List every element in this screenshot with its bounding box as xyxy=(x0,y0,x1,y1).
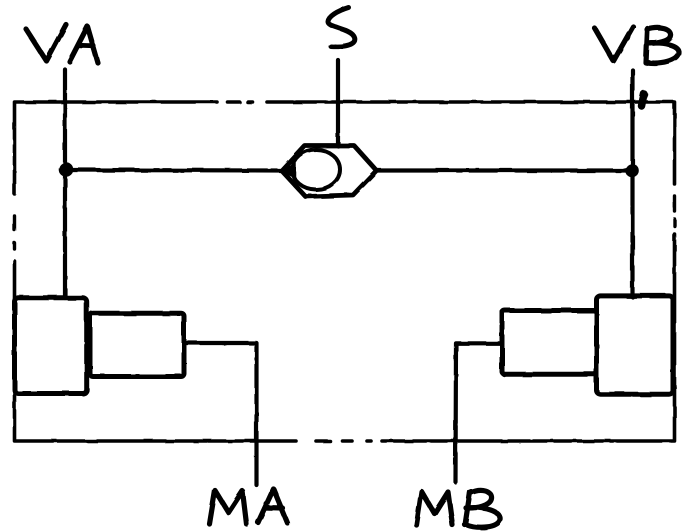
enclosure border top edge dash xyxy=(228,100,240,104)
wire S vertical xyxy=(336,60,340,146)
wire VA vertical xyxy=(63,70,67,299)
check valve block right: pilot rectangle R4 xyxy=(502,311,597,375)
node junction dot B xyxy=(625,164,639,178)
port label MB xyxy=(417,490,501,527)
shuttle valve V1 seat (filled wedge) xyxy=(282,163,296,178)
shuttle valve V1 ball xyxy=(292,150,340,190)
enclosure border top-left corner (chain line solid part) xyxy=(15,102,218,194)
enclosure border bottom edge dash 2 xyxy=(343,439,353,443)
check valve block right: body rectangle R3 xyxy=(597,296,674,394)
enclosure border left edge dash xyxy=(13,216,16,230)
port label VB xyxy=(595,27,679,64)
enclosure border bottom-right corner (chain line solid part) xyxy=(382,234,675,441)
enclosure border bottom edge dash 1 xyxy=(316,439,330,443)
wire shuttle valve right port to node B xyxy=(377,168,633,172)
wire node A to shuttle valve left port xyxy=(66,168,282,173)
enclosure border left edge dot xyxy=(13,243,16,249)
enclosure border top-right corner (chain line solid part) xyxy=(267,102,675,184)
wire VB vertical xyxy=(630,70,634,297)
enclosure border right edge dot xyxy=(673,219,676,226)
check valve block left: pilot rectangle R2 xyxy=(90,313,184,376)
port label VA xyxy=(26,25,98,64)
wire left block to port MA xyxy=(184,343,257,485)
wire right block to port MB xyxy=(456,343,503,482)
tick mark near top-right corner xyxy=(642,94,645,106)
enclosure border right edge dash xyxy=(673,196,676,211)
enclosure border bottom-left corner (chain line solid part) xyxy=(15,261,297,441)
shuttle valve V1 body (hexagon) xyxy=(282,146,377,197)
check valve block left: body rectangle R1 xyxy=(15,298,87,394)
node junction dot A xyxy=(59,162,74,177)
port label S xyxy=(328,8,355,47)
enclosure border top edge dot xyxy=(248,100,253,104)
enclosure border bottom edge dot xyxy=(367,439,371,443)
port label MA xyxy=(210,489,288,524)
